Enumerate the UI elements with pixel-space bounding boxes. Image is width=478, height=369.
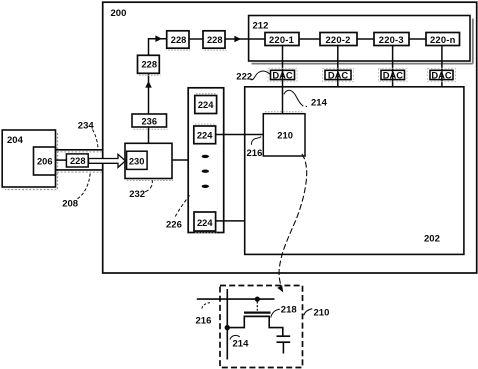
capacitor bottom plate xyxy=(277,341,291,343)
svg-text:208: 208 xyxy=(62,198,78,209)
gate driver box 224 #2 highlight xyxy=(195,123,216,125)
box 236 shadow xyxy=(134,128,168,130)
leader 232 xyxy=(145,180,152,192)
svg-text:214: 214 xyxy=(233,338,250,349)
svg-text:226: 226 xyxy=(166,219,182,230)
box 228 C shadow xyxy=(139,74,161,76)
wire 220-3 through DAC3 to panel xyxy=(392,46,394,87)
transistor gate bar 218 xyxy=(244,312,271,314)
svg-text:204: 204 xyxy=(7,135,24,146)
DAC box 1 xyxy=(271,70,295,79)
svg-text:232: 232 xyxy=(129,189,145,200)
svg-text:214: 214 xyxy=(311,98,328,109)
cable top line shadow xyxy=(57,151,102,153)
ellipsis dot 1 xyxy=(202,155,209,158)
controller box 230 xyxy=(125,143,172,178)
svg-text:220-1: 220-1 xyxy=(269,34,294,45)
register box 220-3 xyxy=(374,33,409,46)
box 228 B xyxy=(203,31,225,48)
svg-text:234: 234 xyxy=(78,121,95,132)
junction dot on data line xyxy=(225,325,230,330)
DAC box 4 xyxy=(430,70,453,79)
svg-text:202: 202 xyxy=(424,234,440,245)
DAC4 wire across xyxy=(441,70,443,79)
arrowhead into detail box xyxy=(277,285,283,292)
big hollow arrow into 230 xyxy=(89,154,126,167)
wire 230 to column 226 xyxy=(172,159,188,161)
wire 228B to 220-1 xyxy=(225,38,265,40)
leader 218 xyxy=(271,309,280,317)
junction dot on select line xyxy=(255,297,260,302)
leader 208 dashed xyxy=(78,173,91,199)
leader 214 squiggle xyxy=(284,90,307,106)
ellipsis dot 3 xyxy=(202,185,209,188)
DAC2 wire across xyxy=(337,70,339,79)
wire 236 to 230 xyxy=(148,127,150,144)
pixel box 210 xyxy=(263,114,305,156)
box 228 B shadow xyxy=(205,49,227,51)
DAC3 wire across xyxy=(392,70,394,79)
svg-text:216: 216 xyxy=(196,315,212,326)
wire 228C up and right to 228A xyxy=(149,39,167,56)
svg-text:230: 230 xyxy=(129,157,145,167)
DAC box 2 halo xyxy=(323,68,354,81)
ellipsis dot 2 xyxy=(202,170,209,173)
gate driver box 224 #3 shadow xyxy=(195,232,217,234)
box 228 C xyxy=(138,55,160,73)
arrowhead up on wire xyxy=(145,81,152,88)
outer system box 200 xyxy=(103,2,477,273)
svg-text:218: 218 xyxy=(281,304,297,315)
controller box 230 bottom shadow xyxy=(127,180,173,182)
gate driver box 224 #1 highlight xyxy=(196,93,217,95)
wire 220-2 to 220-3 xyxy=(357,38,374,40)
DAC box 3 xyxy=(381,70,405,79)
svg-text:216: 216 xyxy=(247,148,263,159)
host box 204 xyxy=(2,130,55,187)
gate driver box 224 #3 xyxy=(194,212,216,231)
wire 228C to 236 xyxy=(148,73,150,114)
DAC box 1 halo xyxy=(268,68,297,81)
svg-text:228: 228 xyxy=(142,60,158,70)
cable bottom line shadow xyxy=(57,171,102,173)
leader 226 dashed xyxy=(175,195,189,216)
svg-text:222: 222 xyxy=(236,72,252,83)
DAC box 4 halo xyxy=(428,68,456,81)
leader 214 detail xyxy=(230,335,240,339)
box 212 xyxy=(249,16,470,62)
host box 204 shadow xyxy=(5,133,58,190)
svg-text:212: 212 xyxy=(253,21,269,32)
register box 220-2 xyxy=(320,33,357,46)
cable top line xyxy=(55,149,103,151)
box 212 shadow xyxy=(252,19,473,64)
wire 220-3 to 220-n xyxy=(409,38,426,40)
wire 220-1 to 220-2 xyxy=(299,38,320,40)
svg-text:210: 210 xyxy=(277,130,293,141)
svg-text:200: 200 xyxy=(111,8,127,19)
pixel box 210 top highlight xyxy=(265,111,304,113)
wire 220-1 through DAC1 to pixel 210 xyxy=(282,46,284,114)
leader 210 detail xyxy=(304,309,313,316)
box 236 xyxy=(132,114,167,127)
box 228 A xyxy=(167,31,189,48)
box 228 A shadow xyxy=(168,49,190,51)
DAC box 3 halo xyxy=(379,68,408,81)
svg-text:224: 224 xyxy=(197,130,213,140)
cable bottom line xyxy=(55,169,103,171)
arrowhead right to 220-1 xyxy=(234,36,241,43)
leader 216 upper xyxy=(251,137,261,145)
gate driver box 224 #1 xyxy=(195,96,217,114)
svg-text:224: 224 xyxy=(198,100,214,110)
leader curve from 210 to detail (dashed S) xyxy=(279,154,307,285)
capacitor top plate xyxy=(277,335,291,337)
detail dashed box 210 xyxy=(220,286,303,368)
register box 220-1 xyxy=(265,33,299,46)
driver column box 226 xyxy=(188,88,224,233)
svg-text:220-n: 220-n xyxy=(430,34,456,45)
svg-text:228: 228 xyxy=(70,156,86,166)
wire 220-n through DAC4 to panel xyxy=(441,46,443,87)
DAC box 2 xyxy=(325,70,351,79)
wire 224#2 to 210 xyxy=(216,134,264,136)
svg-text:220-3: 220-3 xyxy=(379,34,404,45)
svg-text:220-2: 220-2 xyxy=(326,34,351,45)
source box 206 xyxy=(34,147,56,175)
leader 234 dashed xyxy=(93,130,99,150)
data line wire 214 xyxy=(226,289,228,360)
svg-text:224: 224 xyxy=(197,218,213,228)
panel box 202 xyxy=(245,87,464,255)
controller inner label box 230 xyxy=(127,151,148,169)
transistor drain lead xyxy=(269,316,283,336)
leader 216 detail xyxy=(202,302,212,308)
gate driver box 224 #2 xyxy=(194,126,216,144)
svg-text:206: 206 xyxy=(37,157,53,167)
transistor source lead xyxy=(230,316,245,327)
svg-text:236: 236 xyxy=(142,116,158,126)
transistor channel xyxy=(244,315,271,317)
arrowhead right to 228A xyxy=(155,35,162,42)
wire 224#3 to panel xyxy=(216,220,245,222)
select line wire 216 xyxy=(197,298,275,300)
DAC1 wire across xyxy=(282,70,284,79)
cable box 228 xyxy=(66,154,88,167)
svg-text:210: 210 xyxy=(314,307,330,318)
svg-text:228: 228 xyxy=(207,35,223,45)
register box 220-n xyxy=(426,33,460,46)
leader 222 squiggle xyxy=(251,71,271,80)
wire 220-2 through DAC2 to panel xyxy=(337,46,339,87)
svg-text:228: 228 xyxy=(171,35,187,45)
wire 228A to 228B xyxy=(189,38,203,40)
gate dashed lead from select line xyxy=(256,301,258,310)
cable wire into 228 xyxy=(55,159,66,161)
capacitor bottom lead xyxy=(282,342,284,353)
